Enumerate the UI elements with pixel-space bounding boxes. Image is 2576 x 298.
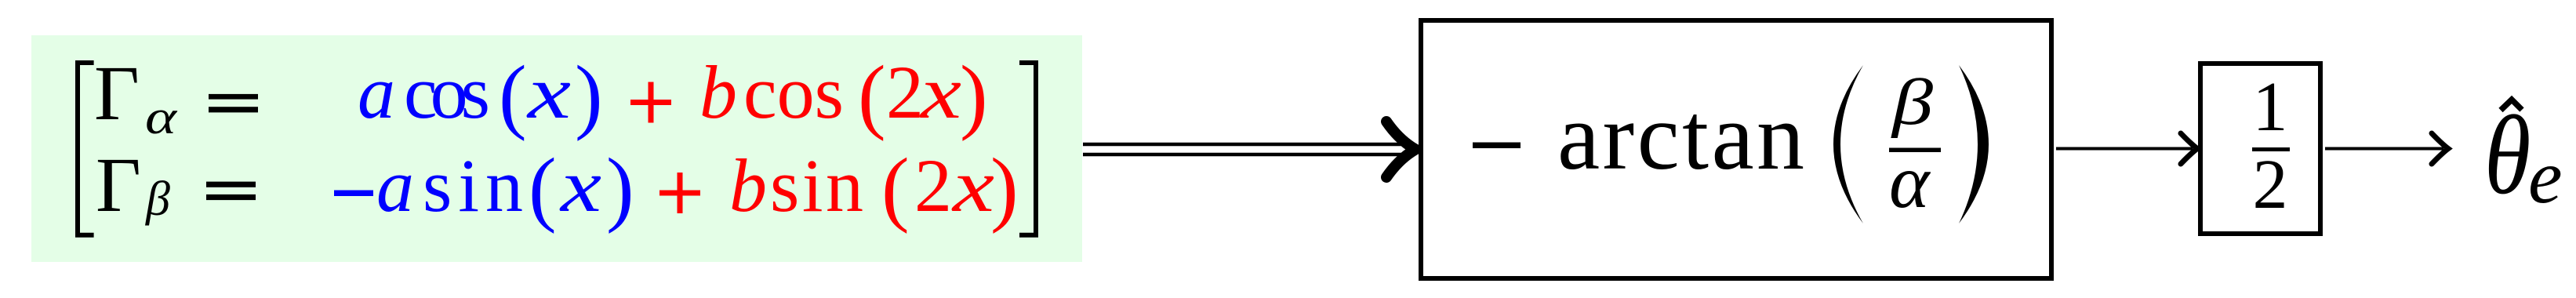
svg-text:(: ( <box>881 142 910 234</box>
svg-text:2: 2 <box>914 144 952 227</box>
svg-text:a: a <box>358 50 395 134</box>
svg-text:α: α <box>1889 140 1931 224</box>
svg-text:Γ: Γ <box>96 141 141 228</box>
svg-text:1: 1 <box>2253 68 2288 146</box>
svg-text:2: 2 <box>886 50 924 134</box>
svg-text:cos: cos <box>404 50 490 134</box>
svg-text:2: 2 <box>2253 146 2288 223</box>
svg-text:): ) <box>990 142 1019 234</box>
svg-text:x: x <box>919 50 961 134</box>
svg-text:): ) <box>960 49 988 142</box>
svg-text:e: e <box>2528 135 2563 220</box>
svg-text:x: x <box>951 144 994 227</box>
svg-text:b: b <box>729 144 767 227</box>
svg-text:β: β <box>1891 66 1934 139</box>
svg-text:(: ( <box>529 142 557 234</box>
svg-text:b: b <box>699 50 737 134</box>
svg-text:β: β <box>145 173 170 226</box>
svg-text:(: ( <box>499 49 527 142</box>
svg-text:α: α <box>145 91 178 144</box>
svg-text:sin: sin <box>770 144 863 227</box>
svg-text:(: ( <box>858 49 886 142</box>
svg-text:x: x <box>559 144 601 227</box>
svg-text:a: a <box>376 144 414 227</box>
svg-text:cos: cos <box>743 50 844 134</box>
svg-text:): ) <box>575 49 603 142</box>
svg-text:sin: sin <box>423 144 523 227</box>
svg-text:Γ: Γ <box>94 49 140 136</box>
svg-text:θ: θ <box>2484 93 2531 217</box>
svg-text:x: x <box>525 50 571 134</box>
svg-text:): ) <box>606 142 634 234</box>
